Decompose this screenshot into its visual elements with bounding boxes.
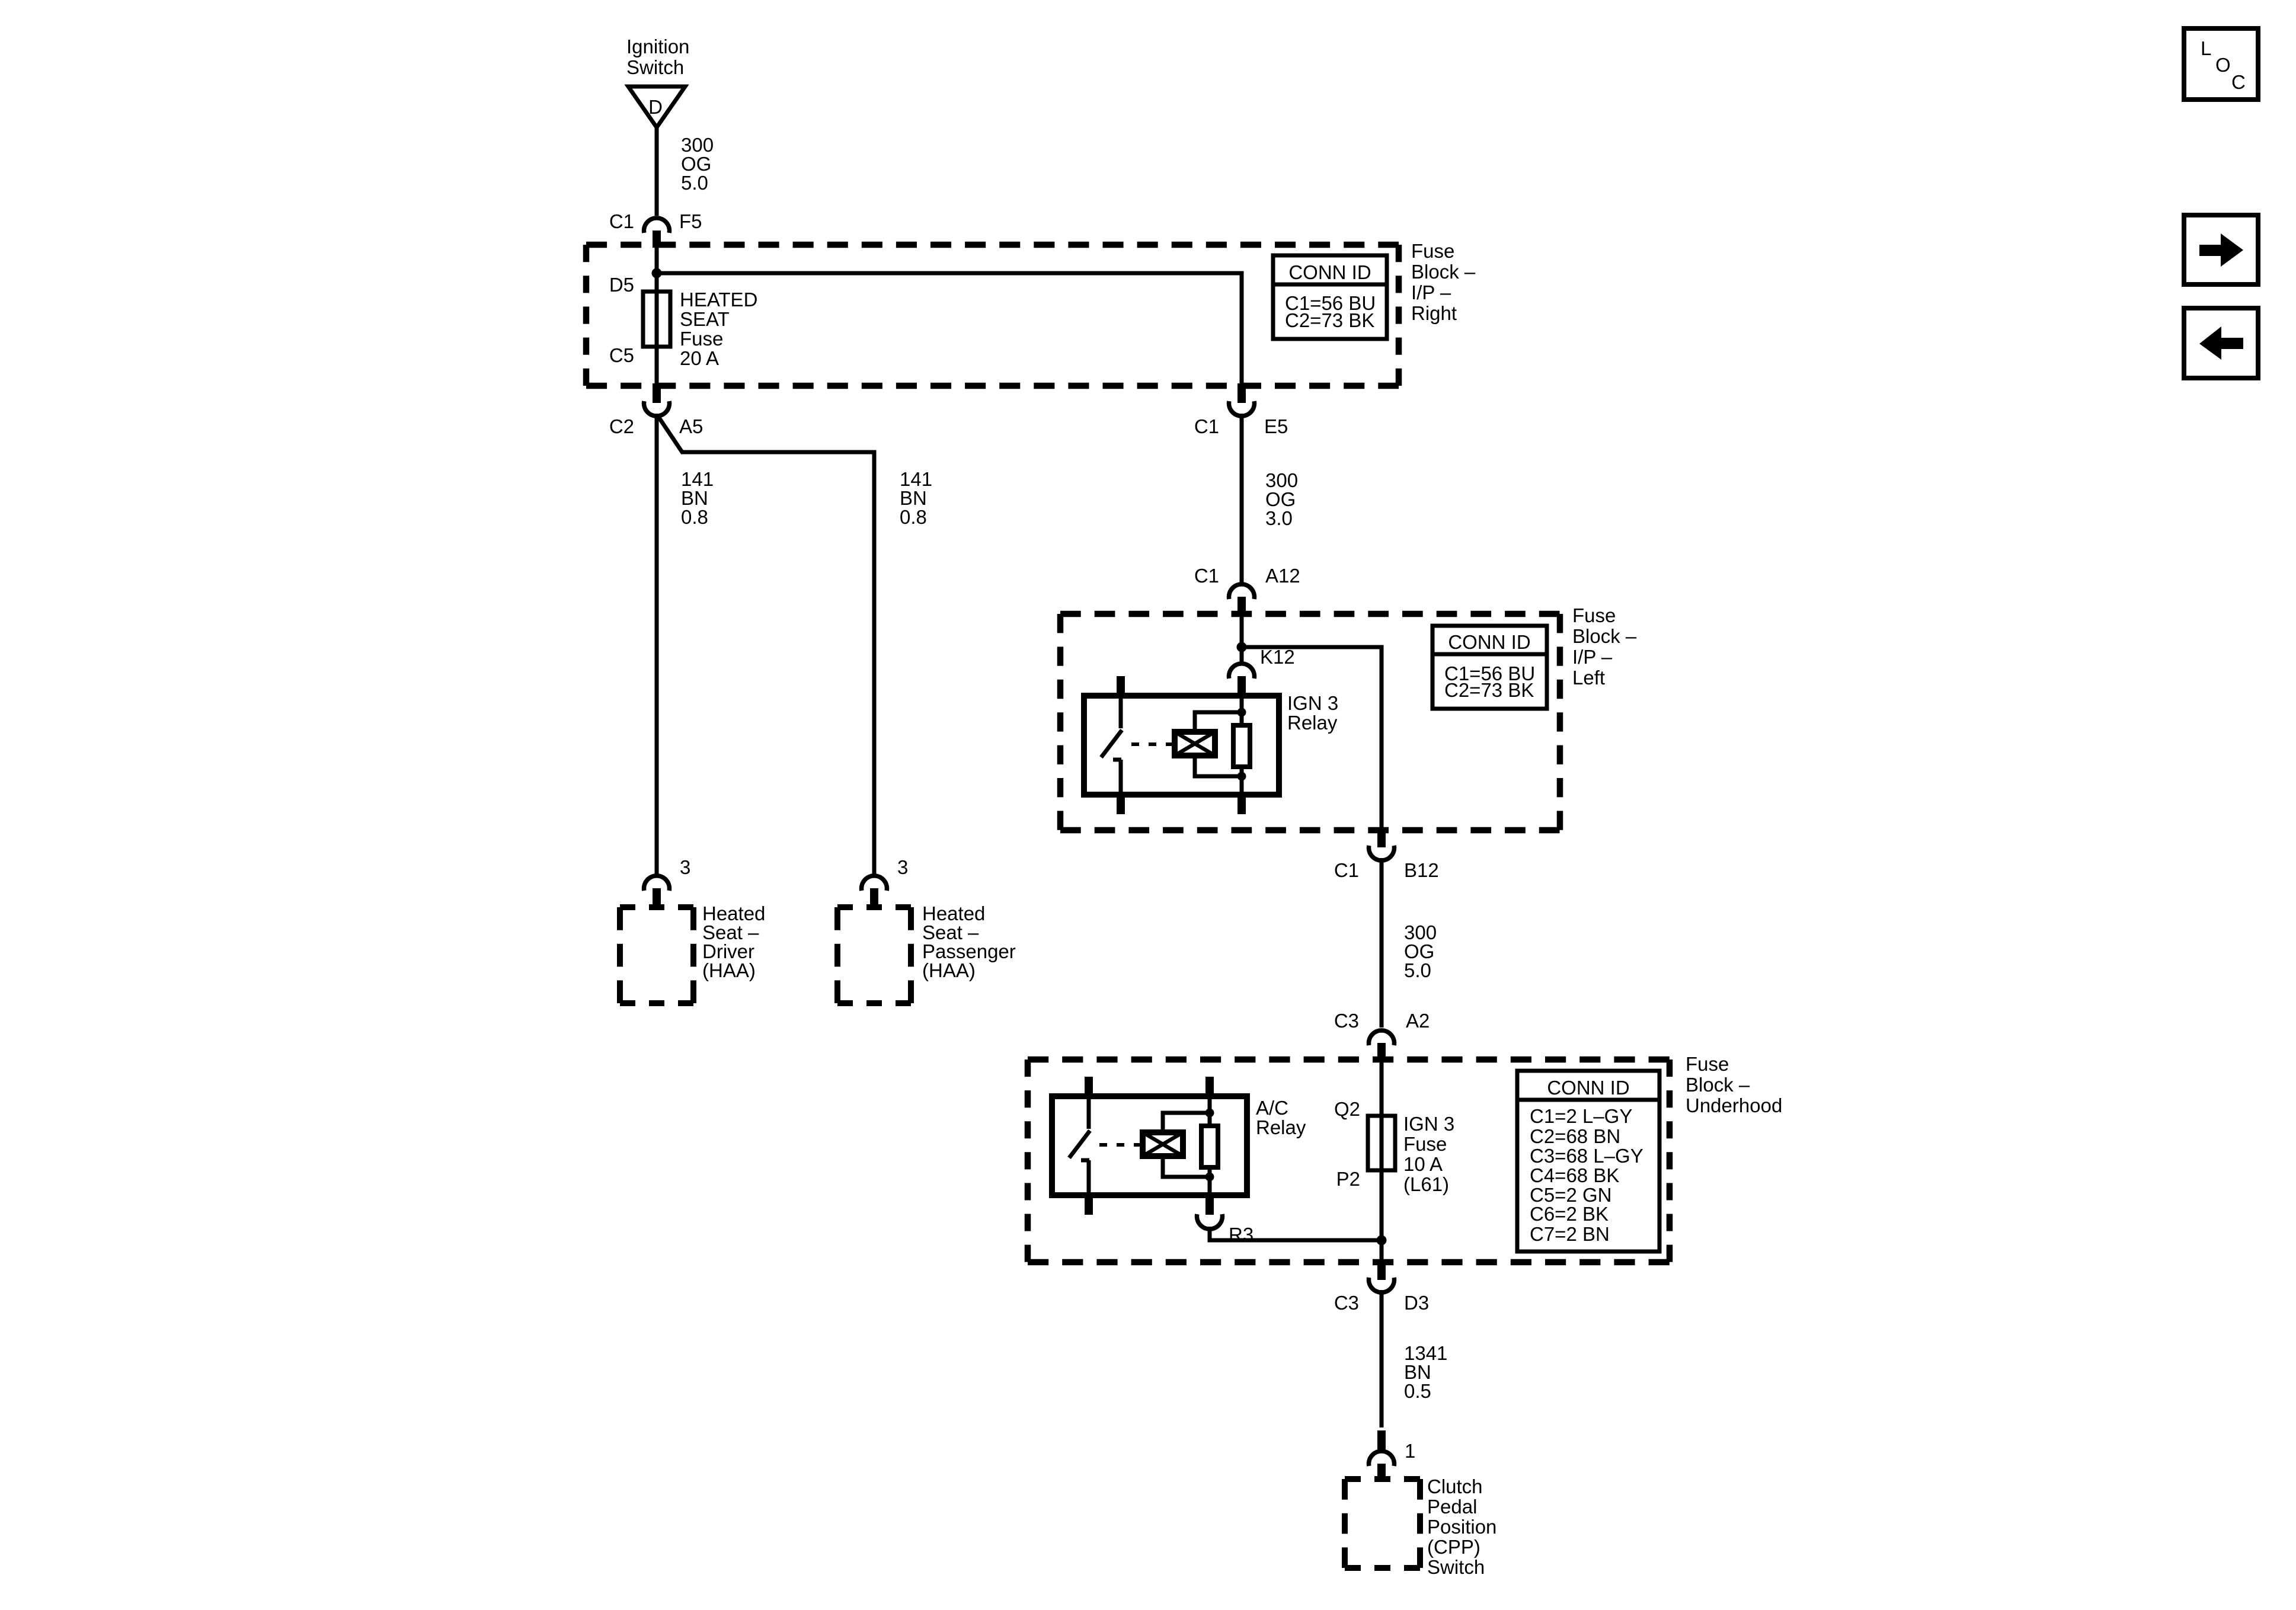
svg-text:Relay: Relay — [1287, 712, 1338, 734]
left arrow icon box — [2184, 308, 2258, 378]
node junction at D5 — [652, 268, 662, 279]
svg-text:K12: K12 — [1260, 646, 1295, 668]
ignition switch feed triangle D — [628, 87, 685, 127]
svg-text:Relay: Relay — [1256, 1116, 1306, 1138]
svg-text:E5: E5 — [1264, 415, 1288, 437]
svg-text:0.5: 0.5 — [1404, 1380, 1431, 1402]
svg-text:1: 1 — [1405, 1440, 1415, 1462]
svg-text:A2: A2 — [1406, 1010, 1430, 1032]
svg-text:C1=2 L–GY: C1=2 L–GY — [1530, 1105, 1632, 1127]
node junction K12 branch — [1237, 642, 1247, 652]
svg-text:C1: C1 — [1334, 859, 1359, 881]
svg-text:I/P –: I/P – — [1411, 281, 1451, 303]
fuse block underhood dashed border — [1028, 1057, 1670, 1063]
svg-text:L: L — [2201, 37, 2211, 59]
svg-text:20 A: 20 A — [680, 347, 719, 369]
fuse block I/P right dashed border — [586, 242, 1399, 248]
svg-text:0.8: 0.8 — [681, 506, 708, 528]
svg-text:CONN ID: CONN ID — [1288, 261, 1371, 283]
svg-text:Fuse: Fuse — [680, 328, 723, 350]
heated seat passenger dashed box — [837, 904, 911, 910]
wire C2/A5 to driver seat — [655, 414, 659, 874]
svg-text:3: 3 — [897, 856, 908, 878]
LOC icon box — [2184, 28, 2258, 100]
svg-text:C1: C1 — [609, 210, 634, 232]
connector C1/B12 — [1377, 828, 1386, 847]
svg-text:3: 3 — [680, 856, 690, 878]
right arrow icon box — [2184, 215, 2258, 284]
fuse IGN 3 10A — [1368, 1116, 1395, 1170]
svg-text:(L61): (L61) — [1403, 1173, 1449, 1195]
svg-text:C1: C1 — [1194, 415, 1219, 437]
svg-text:Fuse: Fuse — [1411, 240, 1454, 262]
connector 3 driver — [644, 876, 670, 891]
svg-text:SEAT: SEAT — [680, 308, 730, 330]
svg-text:C6=2 BK: C6=2 BK — [1530, 1203, 1609, 1225]
connector 3 passenger — [862, 876, 887, 891]
svg-text:A/C: A/C — [1256, 1097, 1288, 1119]
svg-text:Block –: Block – — [1572, 625, 1637, 647]
svg-text:B12: B12 — [1404, 859, 1439, 881]
svg-text:D3: D3 — [1404, 1292, 1429, 1314]
svg-text:A12: A12 — [1265, 565, 1300, 587]
svg-text:C4=68 BK: C4=68 BK — [1530, 1164, 1619, 1186]
heated seat driver dashed box — [620, 904, 693, 910]
svg-text:C5: C5 — [609, 344, 634, 366]
svg-text:(HAA): (HAA) — [922, 959, 976, 981]
svg-text:Fuse: Fuse — [1403, 1133, 1447, 1155]
svg-text:0.8: 0.8 — [900, 506, 927, 528]
svg-text:Switch: Switch — [626, 56, 684, 78]
CONN ID table box3 — [1517, 1071, 1659, 1251]
wire junction to B12 — [1242, 647, 1382, 828]
wire A12 to junction — [1240, 614, 1244, 662]
svg-text:IGN 3: IGN 3 — [1287, 692, 1338, 714]
svg-text:Right: Right — [1411, 302, 1457, 324]
svg-text:P2: P2 — [1336, 1168, 1360, 1190]
node junction R3 branch — [1377, 1235, 1387, 1246]
svg-text:(CPP): (CPP) — [1427, 1536, 1480, 1558]
svg-text:3.0: 3.0 — [1265, 507, 1293, 529]
connector 1 — [1377, 1430, 1386, 1449]
svg-text:Underhood: Underhood — [1686, 1094, 1782, 1116]
connector K12 — [1229, 664, 1255, 678]
wire ignition switch to C1/F5 — [655, 127, 659, 216]
svg-text:Q2: Q2 — [1334, 1098, 1360, 1120]
clutch pedal position switch dashed box — [1345, 1476, 1420, 1482]
svg-text:5.0: 5.0 — [681, 172, 708, 194]
svg-text:CONN ID: CONN ID — [1448, 631, 1530, 653]
wire B12 to A2 — [1380, 858, 1384, 1028]
svg-text:Fuse: Fuse — [1686, 1053, 1729, 1075]
svg-text:Ignition: Ignition — [626, 36, 689, 57]
svg-text:10 A: 10 A — [1403, 1153, 1443, 1175]
wire junction to E5 column — [657, 273, 1242, 383]
svg-text:Pedal: Pedal — [1427, 1496, 1477, 1518]
svg-text:Position: Position — [1427, 1516, 1496, 1538]
svg-text:Block –: Block – — [1686, 1074, 1750, 1096]
fuse HEATED SEAT 20A — [643, 292, 670, 347]
svg-text:C: C — [2231, 71, 2246, 93]
svg-text:C7=2 BN: C7=2 BN — [1530, 1223, 1610, 1245]
wire fork A5 to passenger seat — [658, 416, 874, 874]
CONN ID table box2 — [1432, 626, 1547, 709]
fuse block I/P left dashed border — [1060, 611, 1560, 617]
svg-text:Left: Left — [1572, 667, 1605, 689]
svg-text:D: D — [648, 96, 663, 118]
connector C3/D3 — [1377, 1260, 1386, 1280]
svg-text:C3: C3 — [1334, 1010, 1359, 1032]
svg-text:CONN ID: CONN ID — [1547, 1077, 1629, 1099]
svg-text:F5: F5 — [679, 210, 702, 232]
connector R3 — [1197, 1214, 1223, 1229]
svg-text:D5: D5 — [609, 274, 634, 296]
connector C2/A5 — [653, 383, 661, 403]
svg-text:C2=73 BK: C2=73 BK — [1444, 679, 1534, 701]
svg-text:O: O — [2215, 54, 2231, 76]
svg-text:HEATED: HEATED — [680, 289, 757, 311]
svg-text:I/P –: I/P – — [1572, 646, 1613, 668]
connector C1/E5 — [1237, 383, 1246, 403]
relay A/C — [1052, 1077, 1247, 1215]
svg-text:C1: C1 — [1194, 565, 1219, 587]
svg-text:5.0: 5.0 — [1404, 959, 1431, 981]
wire A2 through IGN3 fuse to D3 — [1380, 1060, 1384, 1262]
svg-text:Switch: Switch — [1427, 1556, 1485, 1578]
svg-text:Fuse: Fuse — [1572, 604, 1616, 626]
svg-text:(HAA): (HAA) — [702, 959, 756, 981]
wire D3 to CPP switch — [1380, 1290, 1384, 1427]
CONN ID table box1 — [1273, 255, 1387, 339]
wire R3 to junction — [1210, 1227, 1382, 1240]
svg-text:C3: C3 — [1334, 1292, 1359, 1314]
svg-text:C3=68 L–GY: C3=68 L–GY — [1530, 1145, 1643, 1167]
svg-text:Block –: Block – — [1411, 261, 1476, 283]
wire E5 to A12 — [1240, 414, 1244, 582]
svg-text:C2=68 BN: C2=68 BN — [1530, 1125, 1620, 1147]
wire through heated seat fuse — [655, 248, 659, 383]
svg-text:A5: A5 — [679, 415, 703, 437]
svg-text:C2: C2 — [609, 415, 634, 437]
svg-text:C2=73 BK: C2=73 BK — [1285, 309, 1374, 331]
relay IGN 3 — [1084, 676, 1279, 814]
svg-text:Clutch: Clutch — [1427, 1475, 1483, 1497]
svg-text:IGN 3: IGN 3 — [1403, 1113, 1454, 1135]
